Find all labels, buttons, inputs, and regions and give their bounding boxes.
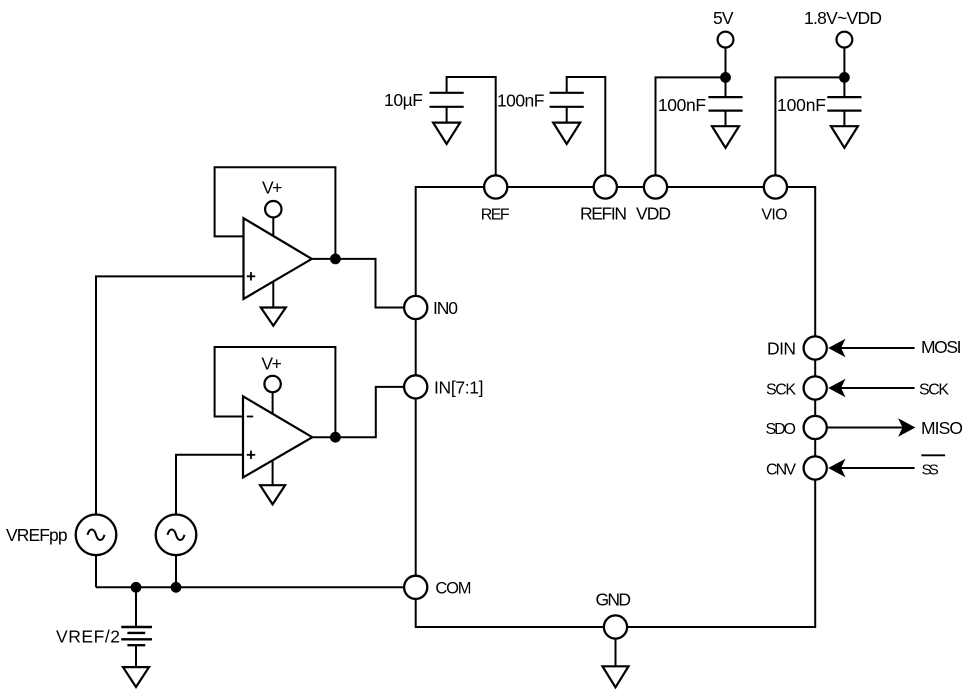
wire 5V terminal down through junction to cap3 xyxy=(725,48,727,98)
arrowhead into DIN xyxy=(828,339,845,357)
svg-text:SCK: SCK xyxy=(919,381,949,398)
wire op-amp U2 V+ stub xyxy=(272,392,274,413)
wire MOSI arrow line xyxy=(840,347,915,349)
wire op-amp U2 noninverting input to source V2 xyxy=(176,455,243,515)
junction node op-amp U1 output xyxy=(330,254,341,265)
pin IN[7:1] xyxy=(404,375,427,398)
capacitor C2 100nF plates xyxy=(550,93,584,107)
arrowhead into SCK xyxy=(828,379,845,397)
wire GND pin to ground xyxy=(615,627,617,666)
wire op-amp U1 output to IN0 xyxy=(312,259,416,308)
junction node battery tap xyxy=(131,582,142,593)
source V1 VREFpp circle xyxy=(76,515,117,556)
wire op-amp U1 noninverting input to source V1 xyxy=(96,276,244,514)
svg-text:COM: COM xyxy=(435,580,471,598)
wire SCK arrow line xyxy=(840,387,915,389)
wire cap2 to ground xyxy=(566,107,568,123)
wire source V1 bottom xyxy=(95,555,97,587)
pin COM xyxy=(404,576,427,599)
wire junction to VIO xyxy=(775,77,844,187)
wire battery to ground xyxy=(135,645,137,667)
wire cap2 top to REFIN xyxy=(567,77,606,187)
svg-text:MOSI: MOSI xyxy=(921,337,962,357)
op-amp U1 plus sign xyxy=(247,272,255,280)
svg-text:100nF: 100nF xyxy=(658,95,706,115)
ground under op-amp U2 xyxy=(260,485,285,504)
svg-text:SCK: SCK xyxy=(766,381,796,398)
svg-text:VIO: VIO xyxy=(761,206,787,223)
supply terminal 1.8V~VDD xyxy=(837,32,853,48)
junction node source V2 tap xyxy=(171,582,182,593)
wire op-amp U1 ground stub xyxy=(272,281,274,308)
capacitor C3 100nF plates xyxy=(708,97,742,111)
svg-text:100nF: 100nF xyxy=(777,95,826,115)
svg-text:1.8V~VDD: 1.8V~VDD xyxy=(804,8,882,28)
wire source V2 bottom xyxy=(175,555,177,587)
source V2 circle xyxy=(156,515,197,556)
ground under GND pin xyxy=(603,666,629,687)
svg-text:REF: REF xyxy=(481,206,510,223)
ground under C3 xyxy=(712,126,739,148)
svg-text:MISO: MISO xyxy=(921,418,963,438)
svg-text:V+: V+ xyxy=(261,354,281,374)
svg-text:IN[7:1]: IN[7:1] xyxy=(434,378,484,398)
wire op-amp U1 V+ stub xyxy=(272,217,274,236)
op-amp U2 plus sign xyxy=(247,451,255,459)
ground under C4 xyxy=(831,126,858,148)
battery VREF/2 xyxy=(121,627,152,645)
wire cap3 to ground xyxy=(725,111,727,127)
wire cap4 to ground xyxy=(843,111,845,127)
overline for SS xyxy=(921,454,945,456)
pin DIN xyxy=(804,336,827,359)
op-amp U1 triangle xyxy=(244,218,312,299)
ground under op-amp U1 xyxy=(261,308,286,326)
op-amp U2 triangle xyxy=(243,396,312,477)
svg-text:CNV: CNV xyxy=(766,461,796,478)
capacitor C1 10uF plates xyxy=(430,93,464,107)
junction node op-amp U2 output xyxy=(330,432,341,443)
svg-text:VREF/2: VREF/2 xyxy=(56,627,120,647)
source V2 sine symbol xyxy=(168,530,185,541)
svg-text:5V: 5V xyxy=(713,8,734,28)
op-amp U2 V+ circle xyxy=(264,376,280,392)
svg-text:100nF: 100nF xyxy=(497,91,544,111)
arrowhead out of SDO xyxy=(898,418,915,436)
wire COM bus xyxy=(96,586,416,588)
ground under C1 xyxy=(433,123,460,144)
ground under battery xyxy=(123,667,149,687)
pin CNV xyxy=(804,456,827,479)
op-amp U2 minus sign xyxy=(247,416,253,418)
pin SCK xyxy=(804,376,827,399)
pin IN0 xyxy=(404,296,427,319)
wire cap1 top to REF xyxy=(447,77,496,187)
wire op-amp U1 feedback loop xyxy=(215,167,336,259)
capacitor C4 100nF plates xyxy=(827,97,861,111)
pin VDD xyxy=(644,175,667,198)
svg-text:V+: V+ xyxy=(262,178,282,198)
svg-text:DIN: DIN xyxy=(767,338,796,358)
svg-text:10µF: 10µF xyxy=(384,90,423,110)
wire 1.8V terminal down through junction to cap4 xyxy=(843,48,845,98)
wire SS arrow line xyxy=(840,467,915,469)
wire MISO arrow line xyxy=(828,427,904,429)
junction node at 5V rail xyxy=(720,72,731,83)
IC body ADC xyxy=(416,187,816,627)
wire op-amp U2 feedback loop xyxy=(215,347,336,437)
svg-text:VDD: VDD xyxy=(636,203,671,223)
svg-text:GND: GND xyxy=(596,590,632,610)
pin REF xyxy=(484,175,507,198)
junction node at 1.8V rail xyxy=(839,72,850,83)
wire op-amp U2 output to IN[7:1] xyxy=(312,387,415,437)
pin REFIN xyxy=(594,175,617,198)
pin GND xyxy=(604,615,627,638)
svg-text:VREFpp: VREFpp xyxy=(6,525,68,545)
op-amp U1 V+ circle xyxy=(265,201,281,217)
pin VIO xyxy=(764,175,787,198)
wire op-amp U2 ground stub xyxy=(272,460,274,485)
wire cap1 to ground xyxy=(446,107,448,123)
source V1 sine symbol xyxy=(88,530,105,541)
svg-text:REFIN: REFIN xyxy=(580,203,627,223)
pin SDO xyxy=(804,416,827,439)
wire battery branch xyxy=(135,587,137,627)
wire junction to VDD xyxy=(656,77,726,187)
svg-text:SDO: SDO xyxy=(766,421,797,438)
svg-text:SS: SS xyxy=(922,461,939,478)
arrowhead into CNV xyxy=(828,459,845,477)
supply terminal 5V xyxy=(718,32,734,48)
ground under C2 xyxy=(553,123,580,144)
svg-text:IN0: IN0 xyxy=(433,298,458,318)
